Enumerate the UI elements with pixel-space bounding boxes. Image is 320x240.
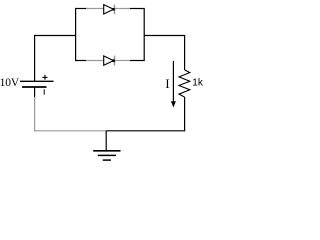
diode D2 cathode bar (114, 56, 116, 66)
wire: top branch right stub black (130, 8, 144, 10)
diode D2 triangle (104, 56, 114, 65)
wire: right mid horizontal to right vertical (144, 36, 184, 70)
diode D1 cathode bar (114, 5, 116, 15)
wire: top branch right pin gray (115, 8, 130, 10)
svg-text:I: I (165, 77, 169, 91)
svg-text:1k: 1k (192, 78, 204, 89)
ground bar 3 (103, 159, 111, 161)
wire: bottom right black (106, 130, 185, 132)
ground bar 1 (93, 150, 120, 152)
wire: right vertical below resistor (184, 97, 186, 131)
battery V1 top plate (20, 80, 54, 82)
current arrow I head (171, 101, 176, 107)
diode D2 junction dot (112, 59, 115, 62)
wire: top branch left pin gray (86, 8, 104, 10)
battery plus sign (42, 75, 47, 80)
wire: bottom left gray (35, 130, 107, 132)
resistor R1 zigzag (179, 70, 190, 97)
ground bar 2 (98, 154, 116, 156)
wire: top branch left stub black (76, 8, 87, 10)
wire: bottom branch left pin gray (86, 60, 104, 62)
diode D1 junction dot (112, 8, 115, 11)
wire: bottom branch left stub black (76, 60, 87, 62)
wire: battery negative stub black (34, 87, 36, 97)
wire: left mid horizontal from battery branch to left node (35, 36, 76, 82)
diode D1 triangle (104, 5, 114, 14)
current arrow I line (172, 61, 174, 102)
wire: bottom branch right stub black (130, 60, 144, 62)
node A left vertical of diode pair (75, 8, 77, 61)
node B right vertical of diode pair (143, 8, 145, 61)
battery minus tick (43, 89, 45, 94)
battery V1 bottom plate (22, 86, 47, 88)
svg-text:10V: 10V (0, 77, 20, 89)
ground stem (105, 131, 107, 151)
wire: battery to bottom left corner gray (35, 97, 36, 131)
wire: bottom branch right pin gray (115, 60, 130, 62)
